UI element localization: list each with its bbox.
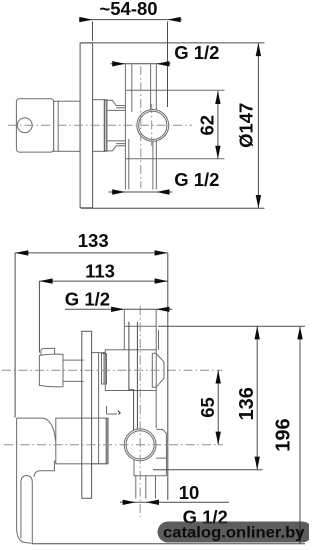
G1/2 bottom dimension line — [109, 191, 173, 193]
133 dimension line — [15, 252, 168, 254]
G1/2 top dimension line — [111, 63, 171, 65]
svg-text:G 1/2: G 1/2 — [174, 42, 219, 63]
svg-text:136: 136 — [236, 387, 258, 420]
shower outlet circle outer — [124, 429, 156, 461]
centerlines of bottom drawing — [2, 306, 223, 517]
arrow 10 right — [146, 500, 159, 505]
arrow 65 up — [216, 370, 221, 383]
union nut profile top — [107, 100, 126, 110]
arrow G1/2 bottom left — [112, 189, 125, 194]
handle hub — [56, 418, 108, 464]
knob axis centerline — [2, 369, 222, 371]
knob stem bottom — [63, 380, 84, 382]
lever paddle inner slot — [21, 476, 32, 544]
top port cap — [124, 325, 156, 327]
Ø147 bottom extension — [81, 207, 265, 209]
knob stem top — [63, 359, 84, 361]
knob set-screw circle — [17, 118, 32, 133]
arrow 113 left — [39, 278, 52, 283]
svg-text:catalog.onliner.by: catalog.onliner.by — [163, 524, 305, 541]
vertical port axis centerline — [140, 66, 142, 188]
hub double edge — [105, 418, 107, 464]
136 bottom extension — [153, 469, 263, 471]
lever paddle top curve — [17, 418, 56, 441]
~54-80 extension right — [167, 22, 169, 108]
arrow 10 left — [123, 500, 136, 505]
tiny hook mark — [118, 411, 121, 415]
arrow 133 right — [155, 250, 168, 255]
outlet port circle outer — [137, 110, 169, 142]
113 extension left — [38, 281, 40, 352]
circle vertical crosshair — [151, 104, 153, 147]
arrow 196 down — [297, 531, 302, 544]
bracket step — [107, 406, 118, 414]
arrow 136 up — [255, 326, 260, 339]
labels of top drawing — [99, 0, 256, 190]
136 dimension line — [256, 326, 258, 470]
arrow G1/2 upper left — [111, 307, 124, 312]
65 dimension line — [217, 370, 219, 445]
diverter knob body — [39, 354, 63, 387]
valve body bottom edge + 62 extension — [125, 158, 224, 160]
body column right edge / G1/2 extension — [155, 65, 157, 190]
arrow 136 down — [255, 457, 260, 470]
wall plate bar — [82, 331, 92, 498]
svg-text:65: 65 — [197, 397, 218, 418]
top port left line — [123, 310, 125, 350]
arrow ~54-80 right — [168, 17, 181, 22]
arrowheads bottom drawing — [15, 250, 303, 544]
dimension lines of top drawing — [79, 20, 265, 209]
arrow G1/2 upper right — [156, 307, 169, 312]
nut ring mid line — [103, 354, 105, 385]
watermark bar — [158, 522, 313, 543]
outlet axis centerline — [4, 444, 223, 446]
arrow 113 right — [155, 278, 168, 283]
sleeve top edge — [91, 352, 105, 354]
flange sleeve edge line — [98, 353, 100, 464]
sleeve divider — [57, 101, 59, 151]
outlet port circle inner thread — [139, 111, 167, 139]
body bottom box — [134, 458, 166, 476]
centerlines of top drawing — [8, 66, 192, 188]
196 dimension line — [299, 326, 301, 544]
lever paddle inner step — [34, 461, 59, 477]
Ø147 top extension — [81, 42, 265, 44]
concealed box bar left — [129, 322, 134, 458]
lever paddle left edge and bottom — [17, 418, 32, 543]
136/196 top extension — [158, 325, 305, 327]
113 dimension line — [39, 280, 167, 282]
arrow 65 down — [216, 432, 221, 445]
flange sleeve behind plate — [93, 100, 105, 152]
top pipe thread lines — [131, 65, 133, 113]
wall escutcheon plate (Ø147) — [80, 43, 93, 208]
arrow Ø147 up — [256, 43, 261, 56]
valve body top edge + 62 extension — [125, 89, 224, 91]
svg-text:~54-80: ~54-80 — [99, 0, 157, 19]
extra port line — [158, 330, 160, 350]
62 dimension line — [217, 91, 219, 159]
svg-text:G 1/2: G 1/2 — [174, 169, 219, 190]
clamp ridge bar — [104, 100, 107, 151]
union nut profile bottom — [107, 141, 126, 151]
dimension ~54-80 line — [79, 19, 182, 21]
sleeve bottom cap — [91, 463, 108, 465]
arrow G1/2 top left — [112, 61, 125, 66]
cartridge nut ring — [102, 354, 107, 385]
body column left edge / G1/2 extension — [124, 65, 126, 190]
concealed box bar right — [136, 322, 138, 430]
bottom port tube line1 — [135, 476, 137, 499]
svg-text:133: 133 — [78, 230, 109, 251]
wall plate front drawing (drawn over hub) — [82, 331, 92, 498]
10 dimension line — [120, 501, 229, 503]
bottom port tube line2 — [145, 476, 147, 499]
handle knob side view — [16, 99, 53, 152]
body right edge above circle — [156, 391, 166, 476]
arrow 62 up — [215, 91, 220, 104]
dimension lines of bottom drawing — [15, 253, 305, 544]
arrow G1/2 top right — [156, 61, 169, 66]
arrow 196 up — [297, 326, 302, 339]
diverter knob tab — [41, 348, 55, 355]
svg-text:196: 196 — [273, 418, 295, 451]
svg-text:10: 10 — [179, 482, 200, 503]
~54-80 extension left — [92, 22, 94, 42]
133 extension left — [14, 253, 16, 418]
arrow 62 down — [215, 146, 220, 159]
labels bottom drawing — [65, 230, 295, 528]
bottom port tube line3 — [155, 476, 157, 499]
arrow Ø147 down — [256, 195, 261, 208]
knob adapter sleeve — [54, 101, 80, 151]
arrow 133 left — [15, 250, 28, 255]
196 bottom extension — [32, 543, 305, 545]
arrow ~54-80 left — [79, 17, 92, 22]
right boss chamfered — [152, 353, 164, 387]
body upper box — [105, 350, 156, 391]
G1/2 upper dimension line — [65, 308, 173, 310]
svg-text:G 1/2: G 1/2 — [65, 289, 110, 310]
top port right line — [155, 310, 157, 350]
right shared extension — [167, 253, 169, 500]
svg-text:Ø147: Ø147 — [236, 103, 257, 148]
svg-text:62: 62 — [197, 115, 218, 136]
arrow G1/2 bottom right — [156, 189, 169, 194]
arrowheads of top drawing — [79, 17, 261, 208]
svg-text:113: 113 — [85, 260, 115, 281]
horizontal axis centerline — [8, 124, 192, 126]
Ø147 dimension line — [257, 44, 259, 208]
vertical axis centerline — [139, 306, 141, 517]
shower outlet circle inner — [126, 431, 154, 459]
bottom pipe thread lines — [128, 139, 130, 190]
